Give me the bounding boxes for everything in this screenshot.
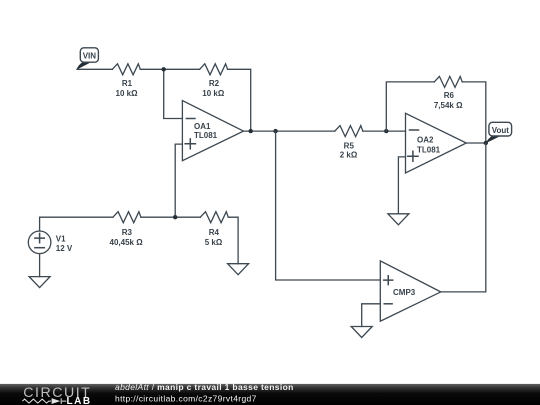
wire node to CMP3 non-inverting input [276,131,381,280]
svg-text:http://circuitlab.com/c2z79rvt: http://circuitlab.com/c2z79rvt4rgd7 [115,394,257,404]
wire R6 feedback branch up [386,82,434,131]
svg-text:2 kΩ: 2 kΩ [340,150,358,159]
svg-text:R2: R2 [209,79,220,88]
wire OA1 non-inverting input down to R3/R4 node [175,144,182,217]
svg-text:TL081: TL081 [194,131,218,140]
node Vout [484,141,488,145]
node branch to CMP3 [273,129,277,133]
wire V1 bottom to ground [39,254,41,277]
wire CMP3 inverting input to ground [362,304,381,327]
svg-text:R3: R3 [122,228,133,237]
wire Vout node down to CMP3 output [441,143,486,292]
svg-text:V1: V1 [56,235,66,244]
flag VIN [77,48,99,70]
resistor R4 [200,212,228,247]
resistor R6 [434,76,463,110]
svg-text:VIN: VIN [83,51,97,60]
svg-text:R6: R6 [444,91,455,100]
node R3/R4 divider [173,215,177,219]
node OA1 output [249,129,253,133]
svg-text:5 kΩ: 5 kΩ [205,238,223,247]
svg-text:abdelAtt / manip c travail 1 b: abdelAtt / manip c travail 1 basse tensi… [115,382,294,392]
op-amp OA1 [182,101,243,161]
svg-text:OA1: OA1 [194,122,211,131]
wire OA2 non-inverting input to ground [398,157,405,214]
resistor R1 [112,64,140,98]
svg-text:LAB: LAB [67,396,92,405]
wire V1 top to R3 [40,217,113,231]
svg-text:TL081: TL081 [417,145,441,154]
svg-text:7,54k Ω: 7,54k Ω [434,101,463,110]
wire R2 to OA1 output node [228,69,251,131]
svg-text:10 kΩ: 10 kΩ [202,89,225,98]
op-amp CMP3 [380,261,441,321]
op-amp OA2 [406,113,467,173]
resistor R2 [200,64,228,98]
svg-text:R4: R4 [209,228,220,237]
CircuitLab logo [22,385,91,405]
svg-text:R1: R1 [122,79,133,88]
node R5/R6 junction [384,129,388,133]
svg-text:OA2: OA2 [417,135,434,144]
wire R5 to OA2 inverting input [363,130,406,132]
wire VIN to R1 [77,68,112,70]
footer credit text [115,382,294,403]
ground OA2 [388,214,409,225]
wire OA2 output [466,142,486,144]
wire OA1 output to R5 [244,130,335,132]
svg-text:40,45k Ω: 40,45k Ω [110,238,144,247]
resistor R5 [335,126,363,160]
ground V1 [29,277,50,288]
wire junction down to OA1 inverting input [164,69,183,118]
svg-text:Vout: Vout [492,126,510,135]
wire R1 to R2 [140,68,199,70]
footer bar [0,384,540,405]
voltage source V1 [28,231,73,254]
node junction R1/R2/OA1 [162,67,166,71]
resistor R3 [110,212,144,247]
wire R4 to ground [228,217,238,264]
ground CMP3 [351,327,372,338]
ground R4 [228,264,249,275]
svg-text:CMP3: CMP3 [393,288,416,297]
wire R3 to R4 [141,216,200,218]
svg-text:10 kΩ: 10 kΩ [116,89,139,98]
flag Vout [486,122,512,143]
wire R6 to output node [462,82,486,143]
svg-text:12 V: 12 V [56,244,73,253]
